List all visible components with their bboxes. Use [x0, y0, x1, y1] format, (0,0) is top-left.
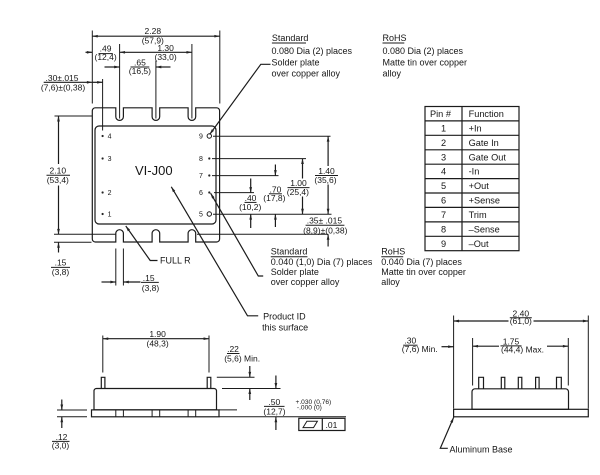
dimension .30±.015 pin setback [41, 73, 103, 130]
svg-text:this surface: this surface [262, 323, 308, 333]
package outline VI-J00 top view [92, 108, 219, 242]
dimension .50 (12,7) module height [263, 376, 331, 431]
svg-text:–Sense: –Sense [469, 224, 500, 234]
svg-text:Matte tin over copper: Matte tin over copper [383, 57, 468, 67]
svg-text:-In: -In [469, 167, 480, 177]
dimension 1.30 (33,0) [120, 43, 192, 119]
svg-text:4: 4 [108, 134, 112, 141]
flatness feature control frame .01 [299, 418, 345, 430]
svg-text:Product ID: Product ID [263, 312, 306, 322]
leader to pin 6 [211, 193, 264, 276]
svg-text:over copper alloy: over copper alloy [271, 277, 340, 287]
svg-text:(16,5): (16,5) [129, 66, 151, 76]
RoHS plating note bottom [381, 247, 466, 288]
end view pin 7 [518, 377, 522, 389]
svg-text:RoHS: RoHS [383, 33, 407, 43]
seating plane line [219, 410, 346, 417]
svg-text:Standard: Standard [271, 247, 308, 257]
leader to pin 9 [210, 64, 271, 134]
side view flange strip [92, 410, 220, 417]
svg-text:alloy: alloy [383, 69, 402, 79]
end view body [472, 389, 569, 410]
end view pin 8 [501, 377, 505, 389]
pin function table [425, 107, 519, 251]
svg-text:+Out: +Out [469, 181, 490, 191]
svg-text:-.000 (0): -.000 (0) [297, 405, 322, 412]
dimension 2.10 (53,4) body height [47, 116, 116, 234]
svg-text:(3,0): (3,0) [52, 441, 70, 451]
svg-text:1: 1 [108, 212, 112, 219]
pin 9 extension line [213, 135, 331, 137]
svg-text:(3,8): (3,8) [142, 283, 160, 293]
svg-text:0.080 Dia (2) places: 0.080 Dia (2) places [383, 46, 464, 56]
svg-text:Function: Function [469, 109, 504, 119]
pin 6 [199, 190, 210, 197]
svg-text:0.040 Dia (7) places: 0.040 Dia (7) places [381, 257, 462, 267]
svg-text:(7,6) Min.: (7,6) Min. [402, 344, 438, 354]
dimension .15 (3,8) slot width [102, 249, 160, 294]
FULL R leader [126, 226, 191, 265]
svg-text:+Sense: +Sense [469, 196, 500, 206]
standard plating note bottom [271, 247, 373, 288]
svg-text:7: 7 [441, 210, 446, 220]
svg-text:0.080 Dia (2) places: 0.080 Dia (2) places [272, 46, 353, 56]
svg-text:4: 4 [441, 167, 446, 177]
svg-text:.01: .01 [326, 420, 338, 430]
dimension .22 (5,6) Min pin exposed [217, 344, 281, 400]
svg-text:(7,6)±(0,38): (7,6)±(0,38) [41, 83, 86, 93]
pin 7 extension line [212, 175, 279, 177]
svg-text:1: 1 [441, 123, 446, 133]
dimension 1.90 (48,3) pin spacing [103, 329, 209, 372]
svg-text:5: 5 [199, 212, 203, 219]
svg-text:2.28: 2.28 [145, 26, 162, 36]
svg-text:(10,2): (10,2) [239, 202, 261, 212]
dimension .40 (10,2) [239, 179, 261, 229]
dimension .35±.015 (8,9)±(0,38) [303, 216, 348, 247]
svg-text:Gate In: Gate In [469, 138, 499, 148]
svg-text:3: 3 [441, 152, 446, 162]
svg-text:(35,6): (35,6) [314, 175, 336, 185]
svg-text:Aluminum Base: Aluminum Base [450, 444, 513, 454]
end view aluminum base plate [454, 409, 589, 417]
svg-text:2: 2 [108, 190, 112, 197]
end view pin 6 [536, 377, 540, 389]
dimension .65 (16,5) [105, 58, 171, 119]
svg-text:–Out: –Out [469, 239, 489, 249]
package inner body edge [95, 126, 216, 224]
standard plating note top [272, 33, 353, 79]
dimension 2.40 (61,0) base width [454, 308, 589, 408]
svg-text:(8,9)±(0,38): (8,9)±(0,38) [303, 226, 348, 236]
product ID leader [171, 187, 308, 333]
svg-text:7: 7 [199, 173, 203, 180]
svg-text:Solder plate: Solder plate [272, 57, 320, 67]
svg-text:(48,3): (48,3) [146, 339, 168, 349]
pin 2 [102, 190, 112, 197]
svg-text:.35± .015: .35± .015 [307, 216, 343, 226]
svg-text:Standard: Standard [272, 33, 309, 43]
dimension .30 (7,6) Min margin [402, 336, 454, 354]
dimension 2.28 (57,9) overall width [92, 26, 220, 104]
svg-text:Solder plate: Solder plate [271, 267, 319, 277]
pin 4 [102, 134, 112, 141]
svg-text:over copper alloy: over copper alloy [272, 69, 341, 79]
svg-text:.50: .50 [268, 397, 280, 407]
dimension .70 (17,8) [263, 165, 285, 228]
svg-text:(33,0): (33,0) [154, 52, 176, 62]
svg-text:.15: .15 [55, 257, 67, 267]
svg-text:5: 5 [441, 181, 446, 191]
svg-text:RoHS: RoHS [381, 247, 405, 257]
pin 8 extension line [212, 158, 306, 160]
end view pin 5 [557, 377, 562, 389]
svg-text:8: 8 [441, 224, 446, 234]
svg-text:6: 6 [441, 196, 446, 206]
svg-text:(3,8): (3,8) [52, 267, 70, 277]
svg-text:(53,4): (53,4) [47, 175, 69, 185]
VI-J00 label [135, 163, 173, 178]
side view pin right [207, 377, 211, 388]
pin 3 [102, 156, 112, 163]
end view pin 9 [479, 377, 484, 389]
svg-text:VI-J00: VI-J00 [135, 163, 173, 178]
dimension .49 (12,4) [86, 43, 117, 62]
svg-text:Trim: Trim [469, 210, 487, 220]
svg-text:(17,8): (17,8) [263, 193, 285, 203]
dimension .12 (3,0) base thickness [52, 400, 87, 451]
svg-text:3: 3 [108, 156, 112, 163]
svg-text:.15: .15 [143, 273, 155, 283]
svg-text:6: 6 [199, 190, 203, 197]
svg-text:Matte tin over copper: Matte tin over copper [381, 267, 466, 277]
pin 6 extension line [214, 192, 254, 194]
side view body [94, 389, 217, 410]
svg-text:+In: +In [469, 123, 482, 133]
svg-text:FULL R: FULL R [160, 255, 191, 265]
svg-text:2: 2 [441, 138, 446, 148]
aluminum base leader [440, 417, 512, 454]
dimension 1.75 (44,4) Max body width [473, 336, 569, 385]
pin 5 extension line [213, 213, 332, 215]
svg-text:8: 8 [199, 156, 203, 163]
svg-text:(25,4): (25,4) [287, 187, 309, 197]
body bottom extension line right [197, 233, 328, 235]
pin 5 [199, 212, 212, 219]
dimension 1.40 (35,6) [314, 136, 338, 214]
dimension 1.00 (25,4) [287, 159, 310, 215]
svg-text:(5,6) Min.: (5,6) Min. [224, 353, 260, 363]
svg-text:Pin #: Pin # [430, 109, 452, 119]
svg-text:(44,4) Max.: (44,4) Max. [501, 344, 544, 354]
dimension .15 (3,8) flange left [51, 242, 92, 277]
pin 7 [199, 173, 210, 180]
svg-text:9: 9 [199, 134, 203, 141]
pin 1 [102, 212, 112, 219]
pin 8 [199, 156, 210, 163]
svg-text:Gate Out: Gate Out [469, 152, 507, 162]
pin 9 [199, 134, 212, 141]
svg-text:alloy: alloy [381, 277, 400, 287]
RoHS plating note top [383, 33, 468, 79]
svg-text:(61,0): (61,0) [510, 316, 532, 326]
svg-text:(12,4): (12,4) [94, 52, 116, 62]
svg-text:0.040 (1,0) Dia (7) places: 0.040 (1,0) Dia (7) places [271, 257, 373, 267]
svg-text:9: 9 [441, 239, 446, 249]
svg-text:(12,7): (12,7) [263, 406, 285, 416]
side view pin left [101, 377, 105, 388]
